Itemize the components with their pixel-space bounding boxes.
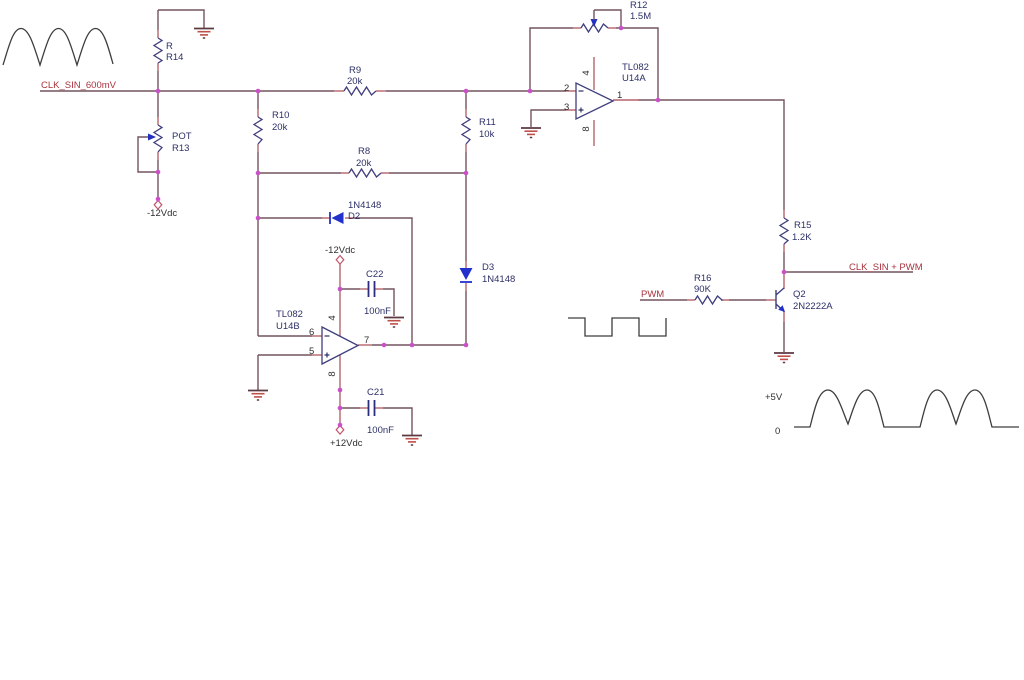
potentiometer R12 bbox=[581, 24, 608, 32]
pin stub Q2 collector bbox=[783, 272, 785, 289]
power pin 4 of U14B bbox=[339, 264, 341, 336]
node +12Vdc bbox=[338, 423, 343, 428]
output waveform sketch (CLK_SIN + PWM) bbox=[794, 390, 1019, 427]
svg-text:R8: R8 bbox=[358, 146, 370, 157]
svg-text:CLK_SIN + PWM: CLK_SIN + PWM bbox=[849, 262, 923, 273]
wire R15 bottom to collector node bbox=[783, 252, 785, 272]
pin stub R16 left bbox=[687, 299, 695, 301]
wire U14B pin5 horizontal bbox=[258, 354, 312, 356]
transistor Q2 emitter arrow bbox=[778, 305, 785, 312]
node main/R14/R13 bbox=[156, 89, 161, 94]
svg-text:-12Vdc: -12Vdc bbox=[325, 245, 355, 256]
pin stub U14B pin6 bbox=[312, 335, 322, 337]
power symbol +12Vdc (below U14B) bbox=[336, 426, 344, 435]
pin stub R15 top bbox=[783, 210, 785, 218]
pin stub R9 left bbox=[334, 90, 344, 92]
svg-text:R16: R16 bbox=[694, 273, 711, 284]
wire PWM net to R16 bbox=[640, 299, 687, 301]
wire Q2 emitter to ground bbox=[783, 322, 785, 352]
wire R16 to Q2 base bbox=[729, 299, 766, 301]
power symbol -12Vdc (below R13) bbox=[154, 201, 162, 210]
svg-text:8: 8 bbox=[581, 126, 592, 131]
pin stub C22 left bbox=[360, 288, 368, 290]
svg-text:R14: R14 bbox=[166, 52, 183, 63]
pin stub D3 bottom bbox=[465, 283, 467, 291]
svg-text:20k: 20k bbox=[272, 122, 288, 133]
op-amp U14B bbox=[322, 327, 358, 364]
wire U14B pin6 horizontal bbox=[258, 335, 312, 337]
wire POT R13 bottom lead to -12Vdc bbox=[157, 160, 159, 200]
wire D2 left bbox=[258, 217, 322, 219]
wire D3 bottom lead bbox=[465, 291, 467, 345]
svg-text:TL082: TL082 bbox=[276, 309, 303, 320]
ground (Q2 emitter) bbox=[774, 353, 794, 363]
svg-text:1N4148: 1N4148 bbox=[348, 200, 381, 211]
resistor R15 bbox=[780, 218, 788, 244]
svg-text:D2: D2 bbox=[348, 211, 360, 222]
svg-text:R10: R10 bbox=[272, 110, 289, 121]
svg-text:7: 7 bbox=[364, 335, 369, 346]
node U14A output bbox=[656, 98, 661, 103]
resistor R10 bbox=[254, 117, 262, 144]
node D2 left bbox=[256, 216, 261, 221]
power pin 8 of U14B bbox=[339, 354, 341, 425]
ground (U14B pin5) bbox=[248, 391, 268, 401]
node U14B pin8 bbox=[338, 388, 343, 393]
wire POT R13 top lead bbox=[157, 91, 159, 117]
svg-text:100nF: 100nF bbox=[367, 425, 394, 436]
capacitor C21 bbox=[369, 400, 375, 416]
wire U14B output bbox=[372, 344, 466, 346]
node R13 wiper tap bbox=[156, 170, 161, 175]
pin stub R13 top bbox=[157, 117, 159, 125]
input sine waveform sketch bbox=[3, 29, 113, 66]
svg-text:R11: R11 bbox=[479, 117, 496, 128]
svg-text:1.5M: 1.5M bbox=[630, 11, 651, 22]
wire D2 right and down to output bbox=[353, 218, 412, 345]
pin stub R14 bottom bbox=[157, 63, 159, 71]
wire CLK_SIN_600mV main net left of R9 bbox=[40, 90, 334, 92]
wire C21 right to ground bbox=[383, 408, 412, 435]
svg-text:POT: POT bbox=[172, 131, 192, 142]
pin stub Q2 emitter bbox=[783, 311, 785, 322]
pin stub C22 right bbox=[375, 288, 383, 290]
power pin 8 of U14A bbox=[593, 120, 595, 146]
ground (C22) bbox=[384, 318, 404, 328]
node U14B pin7 bbox=[382, 343, 387, 348]
node R12 wiper bbox=[619, 26, 624, 31]
node main/feedback bbox=[528, 89, 533, 94]
wire R11 top lead bbox=[465, 91, 467, 109]
pin stub R14 top bbox=[157, 30, 159, 38]
svg-text:2N2222A: 2N2222A bbox=[793, 301, 833, 312]
svg-text:0: 0 bbox=[775, 426, 780, 437]
pin stub D2 right bbox=[345, 217, 353, 219]
svg-text:6: 6 bbox=[309, 327, 314, 338]
svg-text:C22: C22 bbox=[366, 269, 383, 280]
svg-text:TL082: TL082 bbox=[622, 62, 649, 73]
node D2 column / output bbox=[410, 343, 415, 348]
wire R12 wiper loop bbox=[594, 10, 621, 28]
ground (top, near R14) bbox=[194, 29, 214, 39]
node D3 / output bbox=[464, 343, 469, 348]
wire R11 bottom lead bbox=[465, 152, 467, 173]
pot R12 wiper arrow bbox=[591, 19, 598, 27]
svg-text:3: 3 bbox=[564, 102, 569, 113]
pin stub U14A pin3 bbox=[566, 109, 576, 111]
svg-text:2: 2 bbox=[564, 83, 569, 94]
svg-text:R13: R13 bbox=[172, 143, 189, 154]
wire R10 top lead bbox=[257, 91, 259, 109]
pin stub R11 top bbox=[465, 109, 467, 117]
potentiometer R13 bbox=[154, 125, 162, 152]
resistor R14 bbox=[154, 38, 162, 63]
wire D3 top lead bbox=[465, 173, 467, 261]
node R10/R8 bbox=[256, 171, 261, 176]
svg-text:-12Vdc: -12Vdc bbox=[147, 208, 177, 219]
pin stub D3 top bbox=[465, 261, 467, 269]
pin stub R12 right bbox=[608, 27, 616, 29]
ground (U14A pin3) bbox=[521, 128, 541, 138]
resistor R9 bbox=[344, 87, 376, 95]
capacitor C22 bbox=[369, 281, 375, 297]
pin stub U14A pin2 bbox=[566, 90, 576, 92]
transistor Q2 bbox=[776, 288, 784, 312]
wire POT R13 wiper loop bbox=[138, 137, 158, 172]
svg-text:8: 8 bbox=[327, 371, 338, 376]
pin stub U14B pin7 bbox=[358, 344, 372, 346]
resistor R8 bbox=[349, 169, 381, 177]
svg-text:100nF: 100nF bbox=[364, 306, 391, 317]
node R13 bottom bbox=[156, 197, 161, 202]
wire R14 top to ground bbox=[158, 10, 204, 28]
svg-text:PWM: PWM bbox=[641, 289, 664, 300]
pin stub R16 right bbox=[721, 299, 729, 301]
pin stub R9 right bbox=[376, 90, 386, 92]
svg-text:20k: 20k bbox=[356, 158, 372, 169]
wire U14A pin3 to ground bbox=[531, 110, 566, 127]
ground (C21) bbox=[402, 436, 422, 446]
pin stub U14A pin1 bbox=[613, 99, 640, 101]
op-amp U14A bbox=[576, 83, 613, 119]
pin stub R13 bottom bbox=[157, 152, 159, 160]
svg-text:U14B: U14B bbox=[276, 321, 300, 332]
svg-text:C21: C21 bbox=[367, 387, 384, 398]
pin stub R10 bottom bbox=[257, 144, 259, 152]
pin stub R11 bottom bbox=[465, 144, 467, 152]
wire feedback top right bbox=[616, 28, 658, 100]
wire U14B pin5 to ground bbox=[257, 355, 259, 390]
wire C21 left bbox=[340, 407, 360, 409]
wire R8 right bbox=[389, 172, 466, 174]
svg-text:1N4148: 1N4148 bbox=[482, 274, 515, 285]
wire C22 right to ground bbox=[383, 289, 394, 316]
svg-text:CLK_SIN_600mV: CLK_SIN_600mV bbox=[41, 80, 117, 91]
svg-text:4: 4 bbox=[327, 315, 338, 320]
pin stub D2 left bbox=[322, 217, 330, 219]
node R8/R11 bbox=[464, 171, 469, 176]
diode D2 bbox=[332, 212, 344, 224]
svg-text:U14A: U14A bbox=[622, 73, 646, 84]
pin stub Q2 base bbox=[766, 299, 776, 301]
node C22 tap bbox=[338, 287, 343, 292]
pin stub R15 bottom bbox=[783, 244, 785, 252]
PWM square wave sketch bbox=[568, 318, 666, 336]
svg-text:1: 1 bbox=[617, 90, 622, 101]
wire R8 left bbox=[258, 172, 341, 174]
resistor R16 bbox=[695, 296, 722, 304]
wire C22 left bbox=[340, 288, 360, 290]
wire R14 top lead bbox=[157, 10, 159, 30]
diode D3 bbox=[460, 268, 473, 280]
svg-text:R: R bbox=[166, 41, 173, 52]
resistor R11 bbox=[462, 117, 470, 144]
svg-text:D3: D3 bbox=[482, 262, 494, 273]
pin stub R8 left bbox=[341, 172, 349, 174]
wire feedback top left bbox=[530, 28, 573, 91]
pin stub U14B pin5 bbox=[312, 354, 322, 356]
wire R10 bottom lead bbox=[257, 152, 259, 173]
pin stub R12 left bbox=[573, 27, 581, 29]
node C21 tap bbox=[338, 406, 343, 411]
wire inverting node column x258 bbox=[257, 173, 259, 336]
svg-text:20k: 20k bbox=[347, 76, 363, 87]
svg-text:R15: R15 bbox=[794, 220, 811, 231]
svg-text:1.2K: 1.2K bbox=[792, 232, 812, 243]
wire R14 bottom lead bbox=[157, 71, 159, 91]
wire main net right of R9 to U14A pin2 bbox=[386, 90, 566, 92]
svg-text:90K: 90K bbox=[694, 284, 712, 295]
svg-text:R12: R12 bbox=[630, 0, 647, 11]
power symbol -12Vdc (above U14B) bbox=[336, 256, 344, 265]
pin stub R8 right bbox=[381, 172, 389, 174]
svg-text:+12Vdc: +12Vdc bbox=[330, 438, 363, 449]
svg-text:Q2: Q2 bbox=[793, 289, 806, 300]
pin stub C21 right bbox=[375, 407, 383, 409]
node Q2 collector bbox=[782, 270, 787, 275]
wire CLK_SIN + PWM net bbox=[784, 271, 913, 273]
pin stub C21 left bbox=[360, 407, 368, 409]
svg-text:10k: 10k bbox=[479, 129, 495, 140]
pin stub R10 top bbox=[257, 109, 259, 117]
svg-text:+5V: +5V bbox=[765, 392, 783, 403]
node main/R10 bbox=[256, 89, 261, 94]
pot R13 wiper arrow bbox=[148, 134, 156, 141]
svg-text:4: 4 bbox=[581, 70, 592, 75]
wire U14A output to R15 bbox=[638, 100, 784, 210]
power pin 4 of U14A bbox=[593, 57, 595, 90]
svg-text:5: 5 bbox=[309, 346, 314, 357]
node main/R11 bbox=[464, 89, 469, 94]
svg-text:R9: R9 bbox=[349, 65, 361, 76]
